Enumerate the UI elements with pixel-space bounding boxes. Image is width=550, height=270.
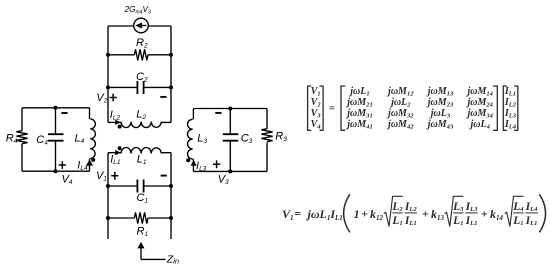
svg-text:L3: L3 bbox=[197, 132, 207, 145]
svg-text:R2: R2 bbox=[136, 37, 148, 50]
svg-text:jωL2: jωL2 bbox=[389, 97, 411, 109]
svg-text:+: + bbox=[361, 207, 368, 221]
svg-text:jωM42: jωM42 bbox=[386, 119, 414, 131]
svg-text:IL1: IL1 bbox=[404, 215, 417, 227]
svg-text:jωM14: jωM14 bbox=[465, 86, 493, 98]
svg-text:L1: L1 bbox=[452, 215, 463, 227]
svg-text:jωM24: jωM24 bbox=[465, 97, 493, 109]
svg-text:IL4: IL4 bbox=[525, 201, 539, 213]
svg-text:V1: V1 bbox=[96, 170, 107, 183]
svg-text:IL3: IL3 bbox=[465, 201, 479, 213]
svg-text:2Gm4V3: 2Gm4V3 bbox=[124, 5, 151, 16]
svg-text:V2: V2 bbox=[311, 97, 322, 109]
svg-text:jωM23: jωM23 bbox=[426, 97, 454, 109]
svg-text:=: = bbox=[329, 104, 335, 115]
svg-text:V3: V3 bbox=[311, 108, 322, 120]
svg-text:V3: V3 bbox=[218, 173, 229, 186]
svg-text:V1: V1 bbox=[311, 86, 321, 98]
svg-text:jωM31: jωM31 bbox=[345, 108, 373, 120]
svg-text:jωL4: jωL4 bbox=[468, 119, 490, 131]
svg-text:L2: L2 bbox=[136, 108, 146, 121]
svg-text:IL1: IL1 bbox=[525, 215, 538, 227]
svg-text:jωM13: jωM13 bbox=[426, 86, 454, 98]
svg-text:L4: L4 bbox=[75, 132, 85, 145]
svg-text:IL2: IL2 bbox=[504, 97, 517, 109]
svg-text:R4: R4 bbox=[6, 133, 18, 146]
svg-text:jωM21: jωM21 bbox=[345, 97, 373, 109]
svg-text:k12: k12 bbox=[370, 207, 384, 222]
svg-text:L1: L1 bbox=[137, 153, 147, 166]
svg-text:+: + bbox=[422, 207, 429, 221]
svg-text:V1: V1 bbox=[282, 207, 294, 222]
svg-text:+: + bbox=[481, 207, 488, 221]
svg-text:IL1: IL1 bbox=[504, 86, 516, 98]
svg-text:Zin: Zin bbox=[166, 253, 179, 265]
svg-text:L2: L2 bbox=[391, 201, 403, 213]
svg-text:=: = bbox=[294, 207, 301, 221]
svg-text:jωM12: jωM12 bbox=[386, 86, 414, 98]
svg-text:jωL1IL1: jωL1IL1 bbox=[306, 207, 343, 222]
svg-text:IL2: IL2 bbox=[110, 109, 121, 122]
svg-text:k13: k13 bbox=[431, 207, 445, 222]
svg-text:IL1: IL1 bbox=[110, 153, 121, 166]
svg-text:jωM43: jωM43 bbox=[426, 119, 454, 131]
svg-text:L4: L4 bbox=[512, 201, 524, 213]
svg-text:R1: R1 bbox=[137, 225, 149, 238]
svg-text:C1: C1 bbox=[137, 192, 149, 205]
svg-text:V4: V4 bbox=[311, 119, 322, 131]
svg-text:IL1: IL1 bbox=[465, 215, 478, 227]
svg-text:IL3: IL3 bbox=[196, 160, 207, 173]
svg-text:IL4: IL4 bbox=[504, 119, 517, 131]
svg-text:1: 1 bbox=[354, 207, 360, 221]
svg-text:L1: L1 bbox=[391, 215, 402, 227]
svg-text:k14: k14 bbox=[490, 207, 504, 222]
svg-text:C3: C3 bbox=[241, 132, 253, 145]
svg-text:jωM32: jωM32 bbox=[386, 108, 414, 120]
svg-text:R3: R3 bbox=[275, 130, 287, 143]
svg-text:V4: V4 bbox=[62, 173, 73, 186]
svg-text:jωL1: jωL1 bbox=[348, 86, 369, 98]
svg-text:jωM34: jωM34 bbox=[465, 108, 493, 120]
svg-text:L3: L3 bbox=[452, 201, 464, 213]
svg-text:C2: C2 bbox=[136, 71, 148, 84]
svg-text:jωL3: jωL3 bbox=[429, 108, 451, 120]
svg-text:jωM41: jωM41 bbox=[345, 119, 373, 131]
svg-text:C4: C4 bbox=[36, 134, 48, 147]
svg-text:V2: V2 bbox=[96, 92, 107, 105]
svg-text:IL3: IL3 bbox=[504, 108, 517, 120]
svg-text:IL4: IL4 bbox=[77, 159, 88, 172]
svg-text:IL2: IL2 bbox=[404, 201, 418, 213]
svg-text:L1: L1 bbox=[512, 215, 523, 227]
